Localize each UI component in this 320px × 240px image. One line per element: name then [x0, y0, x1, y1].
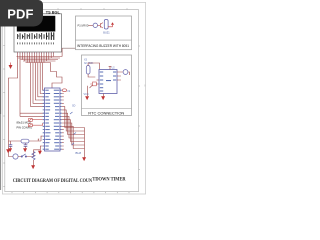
RTC IC U2 DS1307 — [99, 70, 117, 94]
RTC box separator — [82, 108, 132, 110]
switch RESET — [21, 154, 27, 157]
reset wires — [18, 146, 43, 157]
buzzer BUZ1 — [104, 20, 108, 30]
horizontal wire bus below LCD — [17, 54, 63, 62]
right ground bus — [84, 128, 86, 158]
BUZ label — [76, 151, 82, 155]
svg-text:BUZ: BUZ — [76, 151, 82, 155]
RTC IC label — [112, 67, 116, 70]
crystal circuit top wire — [11, 136, 43, 145]
svg-text:TDOWN TIMER: TDOWN TIMER — [92, 177, 125, 183]
right pin short stubs wires — [62, 94, 64, 150]
RTC left component — [90, 82, 97, 86]
svg-text:BUZ1: BUZ1 — [103, 32, 110, 35]
wire hop jogs — [70, 112, 76, 145]
power arrow left rail — [9, 63, 12, 69]
ground arrow C2 — [24, 149, 27, 152]
wire ladder MCU right to bus — [62, 107, 85, 149]
left rail to reset row — [9, 141, 13, 157]
RTC IC right wires — [117, 72, 130, 80]
label 89c51 pin config — [17, 120, 33, 129]
wire bus verticals to MCU pins — [31, 63, 45, 107]
capacitor C1 — [9, 145, 13, 149]
wire staircase LCD to MCU top — [51, 63, 63, 89]
svg-text:PIN CONFIG: PIN CONFIG — [17, 125, 33, 129]
ground arrow RTC2 — [102, 97, 105, 100]
resistor R2 — [93, 23, 97, 27]
svg-text:P3.0/RXD: P3.0/RXD — [78, 24, 89, 27]
buzzer box — [76, 16, 132, 50]
RTC crystal label — [84, 58, 94, 65]
RTC VCC label — [84, 93, 89, 96]
button K1 — [29, 119, 43, 122]
pullup RP1 — [123, 70, 128, 75]
ground arrow RTC1 — [86, 97, 89, 100]
resistor R1 bottom wire — [33, 160, 35, 166]
LCD part label — [46, 10, 60, 14]
wire right rail vertical — [61, 48, 63, 56]
button K2 — [29, 123, 43, 127]
resistor R1 — [32, 152, 35, 160]
net wire to buzzer box — [62, 47, 86, 49]
transistor Q1 — [98, 23, 103, 28]
ground arrow C1 — [9, 149, 12, 152]
svg-text:CIRCUIT DIAGRAM OF DIGITAL COU: CIRCUIT DIAGRAM OF DIGITAL COUN — [13, 178, 92, 184]
title text — [13, 177, 126, 185]
RTC IC pin labels — [100, 72, 116, 92]
MCU left pin stubs — [43, 90, 45, 149]
RTC crystal X3 — [86, 66, 90, 75]
RTC box caption — [88, 111, 125, 115]
RTC IC left stub wires — [97, 80, 100, 84]
MCU U1 89C51 — [45, 88, 61, 151]
ground arrow R1 — [32, 166, 35, 169]
svg-text:PDF: PDF — [7, 7, 33, 22]
RTC bottom wires — [88, 85, 104, 97]
label SDA — [72, 105, 76, 108]
capacitor C2 — [24, 145, 28, 149]
schematic sheet frame — [3, 8, 140, 193]
ground arrow RST — [38, 150, 41, 154]
svg-text:RTC CONNECTION: RTC CONNECTION — [88, 111, 125, 115]
buzzer box caption — [77, 44, 129, 48]
RTC IC vcc stub — [109, 66, 112, 69]
buzzer box separator — [76, 39, 132, 41]
MCU right pin stubs — [60, 90, 62, 149]
page border — [2, 2, 145, 194]
wire LCD pin1 to left rail — [9, 57, 18, 142]
RTC crystal wires — [88, 63, 99, 77]
buzzer label — [103, 32, 110, 35]
page left dark edge — [0, 0, 1, 190]
LCD pin labels — [17, 32, 54, 40]
crystal osc ellipse right pin1 — [62, 89, 70, 93]
LCD pin stubs — [18, 52, 54, 54]
ground arrow reset rail — [7, 150, 10, 153]
svg-text:SD: SD — [72, 105, 76, 108]
svg-text:VCC: VCC — [84, 93, 89, 96]
LCD pin numbers — [17, 42, 54, 44]
power arrow buzzer — [108, 22, 114, 27]
reset capacitor C3 — [13, 154, 18, 159]
wire LCD pin2 rail x20 — [19, 57, 21, 117]
MCU pin name labels — [45, 90, 59, 150]
long wires rail to MCU pins — [20, 113, 45, 116]
buzzer input label — [78, 24, 89, 27]
ground arrow right bus — [83, 158, 86, 161]
svg-text:TS BGL: TS BGL — [46, 10, 60, 14]
PDF badge — [0, 0, 43, 27]
RTC box — [82, 55, 132, 116]
buzzer wire in — [89, 24, 94, 26]
crystal X1 — [21, 139, 29, 143]
svg-text:INTERFACING BUZZER WITH 8051: INTERFACING BUZZER WITH 8051 — [77, 44, 129, 48]
LCD module LCD1 — [14, 14, 62, 52]
